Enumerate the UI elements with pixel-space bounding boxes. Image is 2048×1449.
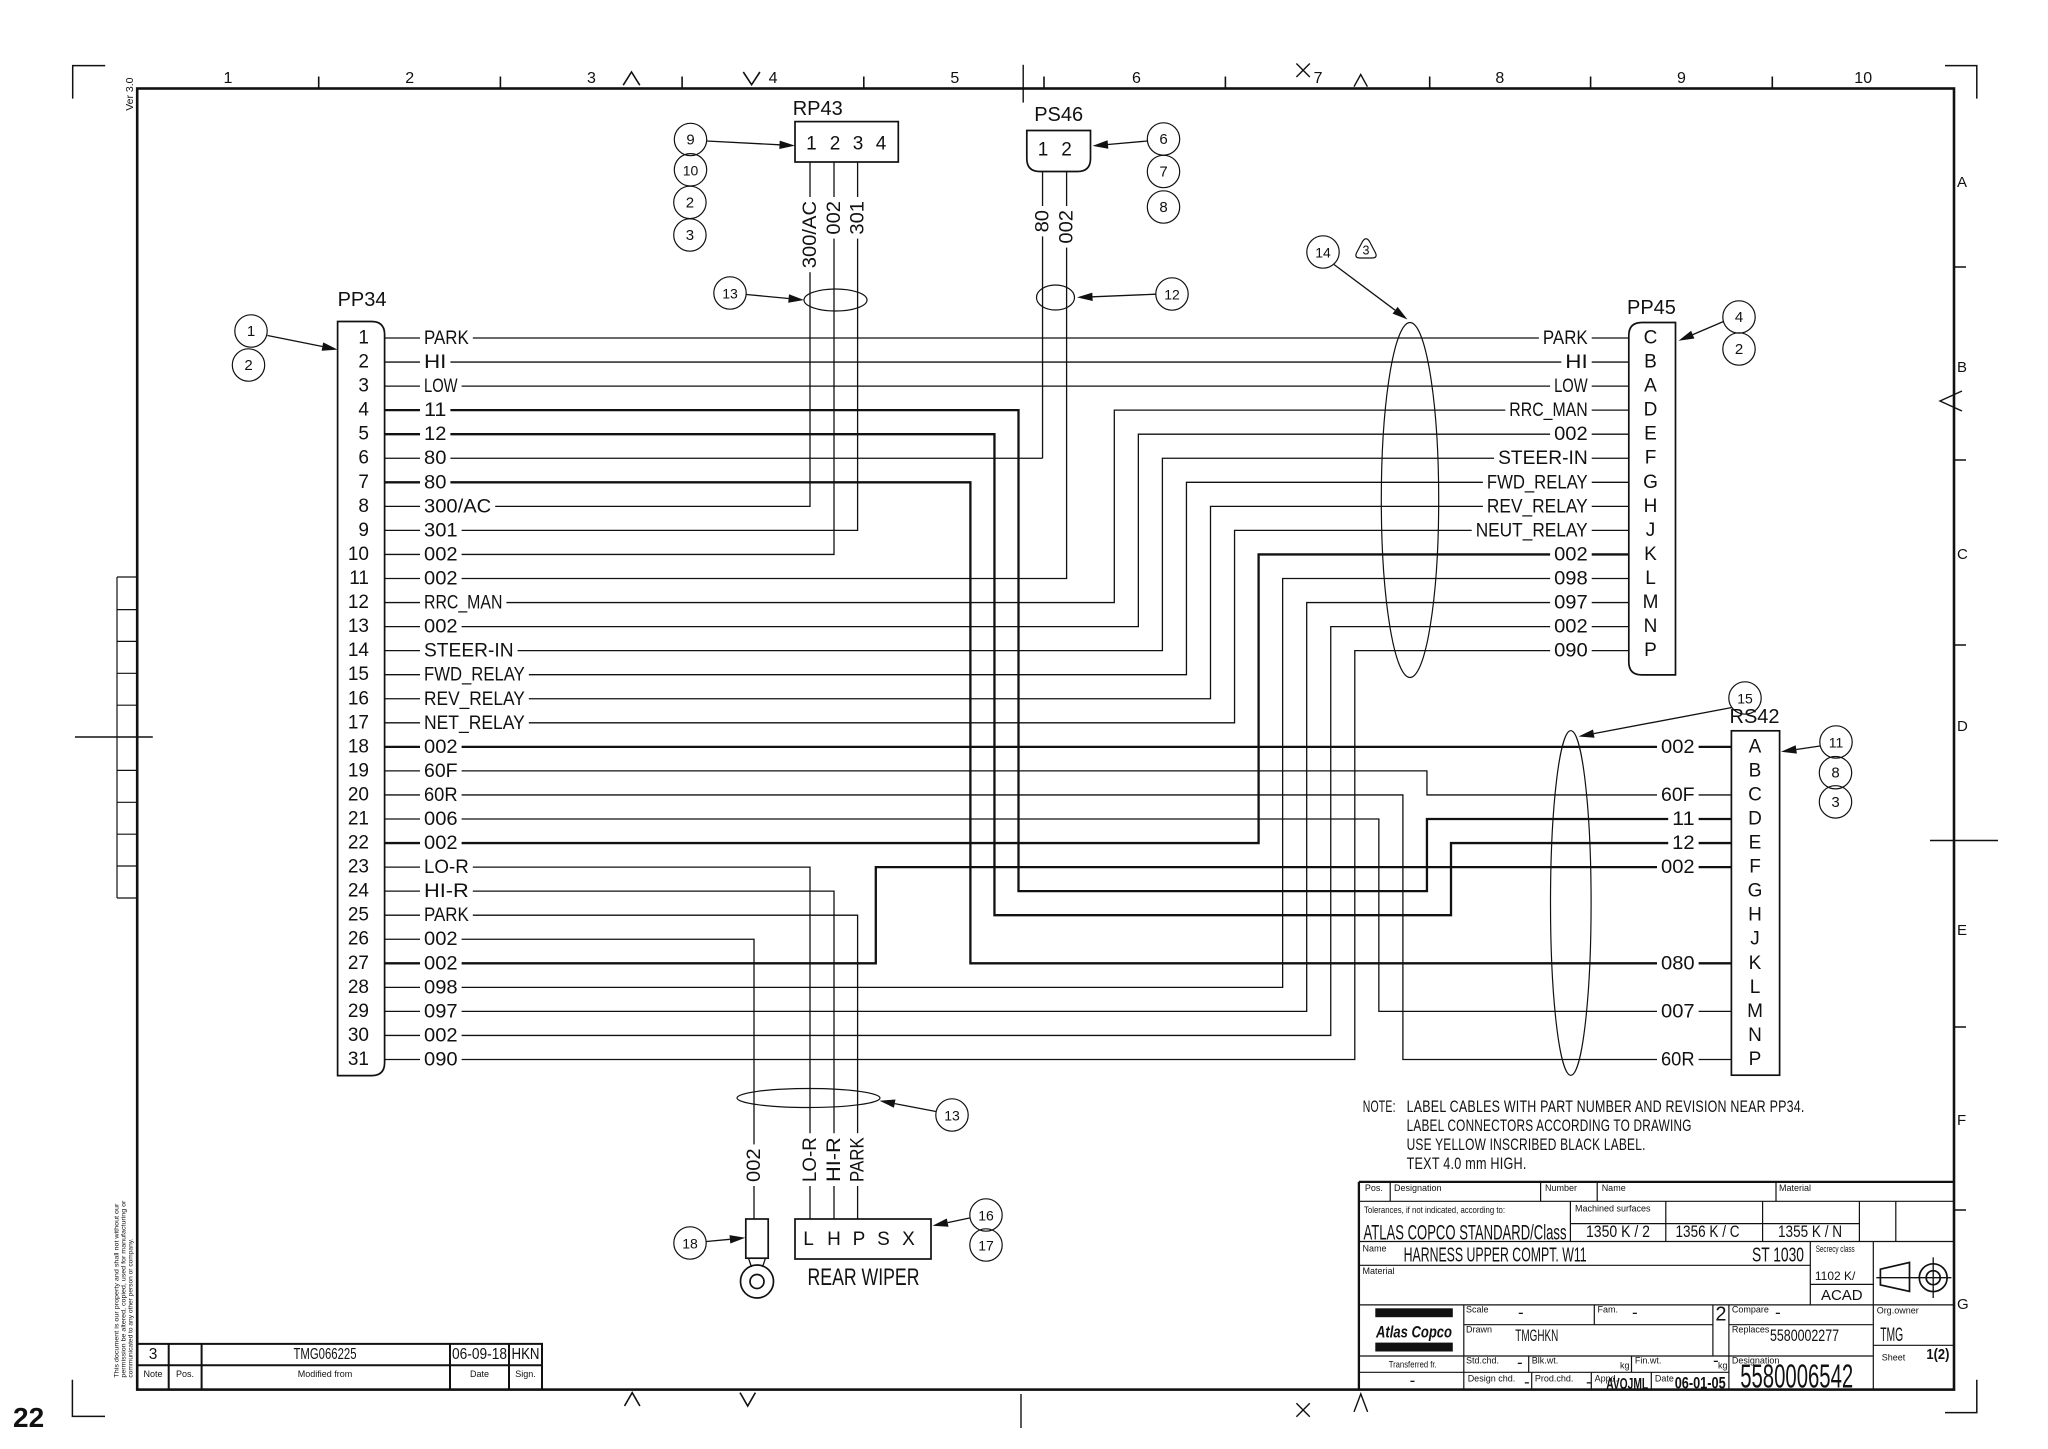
svg-text:L: L [1750,977,1761,998]
cable ellipse at PP45 [1381,323,1438,678]
svg-text:18: 18 [682,1236,698,1252]
svg-text:Modified from: Modified from [298,1369,353,1379]
svg-text:-: - [1524,1373,1530,1392]
label PP34-25 PARK [420,905,473,926]
cable ellipse at RP43 [804,289,867,311]
svg-text:13: 13 [348,616,369,637]
svg-text:11: 11 [1672,808,1694,830]
svg-text:E: E [1644,424,1657,445]
svg-text:F: F [1749,857,1761,878]
label PP45-M 097 [1550,592,1592,613]
svg-text:Blk.wt.: Blk.wt. [1532,1356,1559,1366]
svg-text:29: 29 [348,1001,369,1022]
left fold mark strip [117,577,136,898]
svg-text:8: 8 [358,496,369,517]
balloon 17 [970,1229,1002,1261]
svg-text:B: B [1644,352,1657,373]
balloon 3c [1819,786,1851,818]
svg-text:2: 2 [1735,341,1743,358]
svg-text:K: K [1644,544,1657,565]
corner bracket bottom-right [1945,1380,1977,1413]
svg-text:301: 301 [847,201,869,235]
label PP34-5 12 [420,424,450,445]
wire PP34-27 002 to RS42-F [385,867,1732,963]
label wire 002 [1056,206,1077,248]
svg-text:002: 002 [1661,736,1695,758]
right border arrow mark [1940,391,1962,411]
connector RP43 [795,122,898,162]
svg-text:Number: Number [1545,1183,1577,1193]
svg-text:300/AC: 300/AC [424,495,491,517]
svg-text:4: 4 [769,70,778,87]
svg-text:PARK: PARK [847,1137,869,1182]
svg-text:communicated to any other pers: communicated to any other person or comp… [128,1238,135,1377]
svg-text:G: G [1748,881,1763,902]
svg-text:HI: HI [424,351,446,373]
label PP45-F STEER-IN [1494,448,1592,469]
svg-text:1(2): 1(2) [1926,1346,1949,1363]
svg-text:2: 2 [830,134,841,155]
balloon 18 [674,1227,706,1259]
svg-text:PARK: PARK [424,904,469,926]
wire PP34-11 002 to PS46-2 [385,172,1067,579]
svg-text:L: L [1645,568,1656,589]
leader balloon 9 to RP43 [707,141,780,145]
svg-text:6: 6 [358,448,369,469]
svg-text:19: 19 [348,760,369,781]
leader balloon 14 to ellipse [1334,265,1395,311]
svg-text:097: 097 [1554,592,1588,614]
cable ellipse at rear wiper [737,1089,880,1108]
wire PP34-20 60R to RS42-P [385,795,1732,1060]
connector PS46 [1027,131,1091,172]
label PP34-2 HI [420,352,450,373]
svg-text:002: 002 [1554,423,1588,445]
svg-text:28: 28 [348,977,369,998]
svg-text:06-01-05: 06-01-05 [1675,1374,1726,1393]
svg-text:REV_RELAY: REV_RELAY [424,688,525,710]
leader balloon 18 to terminal [707,1239,730,1241]
wire PP34-4 11 to RS42-D [385,410,1732,891]
svg-text:60R: 60R [1661,1049,1695,1071]
svg-text:Machined surfaces: Machined surfaces [1575,1204,1651,1214]
svg-text:8: 8 [1159,199,1167,216]
svg-text:31: 31 [348,1049,369,1070]
svg-text:1102 K/: 1102 K/ [1815,1269,1856,1283]
svg-text:STEER-IN: STEER-IN [424,640,514,662]
leader balloon 1 to PP34 [268,336,323,347]
svg-text:HARNESS UPPER COMPT. W11: HARNESS UPPER COMPT. W11 [1404,1245,1587,1267]
svg-text:Sign.: Sign. [515,1369,536,1379]
label RS42 080 [1657,953,1699,974]
svg-text:12: 12 [1164,287,1180,303]
svg-text:F: F [1957,1112,1966,1129]
svg-text:Date: Date [1655,1374,1674,1384]
leader balloon 11 to RS42 [1796,746,1820,750]
svg-text:H: H [827,1229,841,1250]
svg-text:Pos.: Pos. [1365,1183,1383,1193]
svg-text:Std.chd.: Std.chd. [1466,1356,1499,1366]
connector RS42 [1731,731,1779,1075]
svg-text:60R: 60R [424,784,458,806]
svg-text:002: 002 [424,736,458,758]
label RS42 60R [1657,1049,1699,1070]
label PP34-13 002 [420,616,462,637]
svg-text:18: 18 [348,736,369,757]
svg-text:Sheet: Sheet [1882,1352,1906,1362]
svg-text:10: 10 [1854,70,1872,87]
svg-text:7: 7 [1314,70,1323,87]
label PP34-8 300/AC [420,496,495,517]
svg-text:RP43: RP43 [793,98,843,120]
svg-text:PARK: PARK [424,327,469,349]
label wire HI-R [824,1133,845,1186]
svg-text:30: 30 [348,1025,369,1046]
balloon 13 [714,277,746,309]
svg-text:Design chd.: Design chd. [1468,1374,1516,1384]
svg-text:P: P [1749,1049,1762,1070]
svg-text:A: A [1644,376,1657,397]
svg-text:USE YELLOW INSCRIBED BLACK LAB: USE YELLOW INSCRIBED BLACK LABEL. [1407,1135,1646,1154]
svg-text:TEXT 4.0 mm HIGH.: TEXT 4.0 mm HIGH. [1407,1154,1527,1173]
right border row ticks [1954,267,1966,1210]
svg-text:NET_RELAY: NET_RELAY [424,712,525,734]
label PP34-9 301 [420,520,462,541]
svg-text:PP45: PP45 [1627,297,1676,319]
label PP34-17 NET_RELAY [420,712,529,733]
svg-text:Fin.wt.: Fin.wt. [1635,1356,1662,1366]
wire PP34-30 002 to PP45-N [385,627,1629,1036]
svg-text:M: M [1747,1001,1763,1022]
svg-text:27: 27 [348,953,369,974]
svg-text:300/AC: 300/AC [799,201,821,268]
svg-text:PP34: PP34 [338,289,387,311]
svg-text:Org.owner: Org.owner [1877,1306,1919,1316]
leader balloon 16 to wiper [948,1218,970,1223]
svg-text:3: 3 [1831,794,1839,811]
svg-text:80: 80 [1032,210,1054,233]
svg-text:11: 11 [1829,735,1844,751]
svg-text:20: 20 [348,785,369,806]
leader balloon 15 to ellipse [1594,708,1732,734]
svg-text:080: 080 [1661,952,1695,974]
svg-text:N: N [1748,1025,1762,1046]
svg-text:Secrecy class: Secrecy class [1816,1244,1855,1254]
wire PP34-12 RRC_MAN to PP45-D [385,410,1629,602]
svg-text:4: 4 [358,400,369,421]
label RS42 12 [1668,833,1698,854]
svg-text:This document is our property: This document is our property and shall … [114,1203,121,1378]
leader balloon 4 to PP45 [1693,322,1724,335]
balloon 14 [1307,236,1339,268]
right border centre mark [1930,840,1998,842]
svg-text:002: 002 [1554,544,1588,566]
label PP34-29 097 [420,1001,462,1022]
svg-text:007: 007 [1661,1000,1695,1022]
svg-text:21: 21 [348,809,369,830]
svg-text:REV_RELAY: REV_RELAY [1487,495,1588,517]
wire PP34-15 FWD_RELAY to PP45-G [385,482,1629,674]
wire PP34-1 PARK to PP45-C [385,337,1629,339]
svg-text:-: - [1713,1351,1719,1370]
svg-text:S: S [877,1229,890,1250]
sheet centre mark bottom [1020,1394,1022,1428]
svg-text:Prod.chd.: Prod.chd. [1535,1374,1574,1384]
drawing frame border [137,89,1954,1390]
svg-text:10: 10 [683,162,699,178]
balloon 8b [1819,757,1851,789]
svg-text:TMG: TMG [1880,1325,1903,1346]
svg-text:-: - [1632,1303,1638,1322]
svg-text:HKN: HKN [512,1346,540,1363]
svg-text:098: 098 [1554,568,1588,590]
svg-text:12: 12 [1672,832,1694,854]
svg-text:8: 8 [1495,70,1504,87]
svg-text:2: 2 [1715,1304,1726,1326]
svg-text:-: - [1586,1373,1592,1392]
svg-text:13: 13 [944,1108,960,1124]
svg-text:LO-R: LO-R [424,856,469,878]
wire net 002 PP34-22 to PP45-K [385,554,1629,843]
wire PP34-14 STEER-IN to PP45-F [385,458,1629,650]
svg-text:097: 097 [424,1000,458,1022]
top column numbers 1-10 [224,70,1873,87]
corner bracket bottom-left [72,1380,105,1417]
svg-text:Ver 3.0: Ver 3.0 [124,77,136,110]
svg-text:14: 14 [1315,245,1331,261]
svg-text:3: 3 [358,376,369,397]
label PP45-H REV_RELAY [1483,496,1592,517]
projection symbols [1876,1277,1916,1279]
leader balloon 13 to wiper ellipse [895,1104,936,1112]
label PP34-16 REV_RELAY [420,688,529,709]
svg-text:80: 80 [424,447,447,469]
svg-text:H: H [1644,496,1658,517]
svg-text:C: C [1644,328,1658,349]
label PP34-1 PARK [420,328,473,349]
balloon 8 [1147,191,1179,223]
balloon 10 [674,154,706,186]
svg-text:D: D [1957,718,1968,735]
right border row letters A-G [1957,174,1969,1313]
svg-text:60F: 60F [424,760,458,782]
balloon 7 [1147,155,1179,187]
revision table [137,1344,542,1389]
svg-text:9: 9 [686,132,694,149]
label PP45-L 098 [1550,568,1592,589]
label PP45-D RRC_MAN [1505,400,1591,421]
svg-text:3: 3 [853,134,864,155]
svg-text:4: 4 [876,134,887,155]
svg-text:7: 7 [1159,164,1167,181]
label PP45-C PARK [1539,328,1592,349]
svg-text:NEUT_RELAY: NEUT_RELAY [1476,519,1588,541]
svg-text:2: 2 [405,70,414,87]
svg-text:Name: Name [1602,1183,1626,1193]
wire PP34-2 HI to PP45-B [385,361,1629,363]
label wire 002 [824,197,845,239]
svg-text:REAR WIPER: REAR WIPER [808,1264,920,1291]
balloon 2c [1723,333,1755,365]
svg-text:LO-R: LO-R [799,1137,821,1182]
label wire 300/AC [800,197,821,272]
svg-text:2: 2 [244,357,252,374]
left border centre mark [75,736,153,738]
svg-text:PARK: PARK [1543,327,1588,349]
svg-text:kg: kg [1718,1361,1728,1371]
registration marks bottom [625,1393,640,1406]
svg-text:AVOJML: AVOJML [1606,1376,1648,1393]
wire PP34-19 60F to RS42-C [385,771,1732,795]
svg-text:kg: kg [1620,1361,1630,1371]
label PP34-23 LO-R [420,857,473,878]
wire PS46-1 80 drop [1042,172,1044,459]
svg-text:ATLAS COPCO STANDARD/Class: ATLAS COPCO STANDARD/Class [1364,1222,1567,1245]
svg-text:TMG066225: TMG066225 [294,1346,357,1363]
svg-text:HI: HI [1565,351,1587,373]
svg-text:P: P [853,1229,866,1250]
svg-text:3: 3 [587,70,596,87]
svg-text:J: J [1646,520,1656,541]
svg-text:22: 22 [13,1402,44,1433]
svg-text:Replaces: Replaces [1732,1325,1770,1335]
wire PP34-21 006 to RS42-M [385,819,1732,1011]
svg-text:1: 1 [224,70,233,87]
label PP45-G FWD_RELAY [1483,472,1592,493]
svg-text:Date: Date [470,1369,489,1379]
label RS42 11 [1668,809,1698,830]
wire PP34-10 002 to RP43-2 [385,162,834,554]
svg-text:HI-R: HI-R [823,1137,845,1182]
svg-text:17: 17 [978,1238,994,1254]
label RS42 002 [1657,736,1699,757]
svg-text:RRC_MAN: RRC_MAN [424,592,502,614]
balloon 9 [674,123,706,155]
svg-text:301: 301 [424,519,458,541]
svg-text:Transferred fr.: Transferred fr. [1389,1360,1437,1370]
svg-text:5: 5 [950,70,959,87]
balloon 2b [674,186,706,218]
svg-text:Material: Material [1779,1183,1811,1193]
svg-text:24: 24 [348,881,370,902]
label PP45-E 002 [1550,424,1592,445]
svg-text:H: H [1748,905,1762,926]
svg-text:F: F [1645,448,1657,469]
svg-text:FWD_RELAY: FWD_RELAY [424,664,525,686]
svg-text:Material: Material [1363,1266,1395,1276]
wire PP34-16 REV_RELAY to PP45-H [385,506,1629,698]
wire net 002 PP34-18 to RS42-A [385,746,1732,748]
svg-text:-: - [1517,1353,1523,1372]
svg-text:Pos.: Pos. [176,1369,194,1379]
svg-text:22: 22 [348,833,369,854]
label wire LO-R [800,1133,821,1186]
svg-text:80: 80 [424,471,447,493]
label PP34-24 HI-R [420,881,473,902]
wire PP34-29 097 to PP45-M [385,603,1629,1012]
svg-text:002: 002 [1554,616,1588,638]
svg-text:LOW: LOW [424,375,458,397]
svg-text:1350 K / 2: 1350 K / 2 [1586,1222,1650,1241]
label PP45-K 002 [1550,544,1592,565]
wire PP34-13 002 to PP45-E [385,434,1629,626]
svg-text:J: J [1750,929,1760,950]
svg-text:12: 12 [348,592,369,613]
svg-text:11: 11 [424,399,446,421]
svg-text:090: 090 [424,1049,458,1071]
svg-text:12: 12 [424,423,446,445]
svg-text:B: B [1749,760,1762,781]
label PP34-27 002 [420,953,462,974]
svg-text:1355 K / N: 1355 K / N [1778,1222,1842,1241]
registration marks top [623,72,640,85]
wire PP34-31 090 to PP45-P [385,651,1629,1060]
svg-text:10: 10 [348,544,369,565]
svg-text:002: 002 [424,568,458,590]
svg-text:Scale: Scale [1466,1305,1489,1315]
label PP34-30 002 [420,1025,462,1046]
svg-text:STEER-IN: STEER-IN [1498,447,1588,469]
svg-text:002: 002 [424,1025,458,1047]
leader balloon 12 to ellipse [1093,294,1156,297]
svg-text:LABEL CONNECTORS ACCORDING TO: LABEL CONNECTORS ACCORDING TO DRAWING [1407,1116,1692,1135]
label PP34-10 002 [420,544,462,565]
label PP45-B HI [1561,352,1591,373]
svg-text:16: 16 [348,688,369,709]
balloon 3b [674,219,706,251]
svg-text:E: E [1749,833,1762,854]
svg-text:Atlas Copco: Atlas Copco [1375,1323,1452,1342]
svg-text:LOW: LOW [1554,375,1588,397]
svg-text:FWD_RELAY: FWD_RELAY [1487,471,1588,493]
svg-text:5: 5 [358,424,369,445]
label RS42 002 [1657,857,1699,878]
svg-text:X: X [902,1229,915,1250]
leader balloon 6 to PS46 [1108,141,1148,145]
svg-text:PS46: PS46 [1034,104,1083,126]
svg-text:L: L [803,1229,814,1250]
note text block [1363,1097,1805,1173]
label PP34-22 002 [420,833,462,854]
wire PP34-25 PARK to wiper P [385,915,858,1219]
svg-text:permission be altered, copied,: permission be altered, copied, used for … [121,1200,128,1378]
svg-text:C: C [1748,785,1762,806]
svg-text:1: 1 [358,328,369,349]
svg-text:Compare: Compare [1732,1305,1769,1315]
balloon 2 [232,349,264,381]
label RS42 007 [1657,1001,1699,1022]
svg-text:9: 9 [358,520,369,541]
svg-text:NOTE:: NOTE: [1363,1097,1396,1116]
svg-text:G: G [1643,472,1658,493]
svg-text:3: 3 [149,1346,158,1363]
label PP34-14 STEER-IN [420,640,518,661]
svg-text:M: M [1643,592,1659,613]
svg-text:TMGHKN: TMGHKN [1515,1326,1558,1345]
svg-text:2: 2 [1061,140,1072,161]
svg-text:006: 006 [424,808,458,830]
wire PP34-9 301 to RP43-3 [385,162,858,530]
svg-text:ST 1030: ST 1030 [1752,1245,1804,1267]
svg-text:6: 6 [1132,70,1141,87]
svg-text:002: 002 [424,544,458,566]
leader balloon 13 to ellipse [747,295,789,299]
svg-text:Name: Name [1363,1244,1387,1254]
label PP45-P 090 [1550,640,1592,661]
cable ellipse at PS46 [1037,285,1075,310]
label PP34-3 LOW [420,376,462,397]
svg-text:1: 1 [247,323,255,340]
